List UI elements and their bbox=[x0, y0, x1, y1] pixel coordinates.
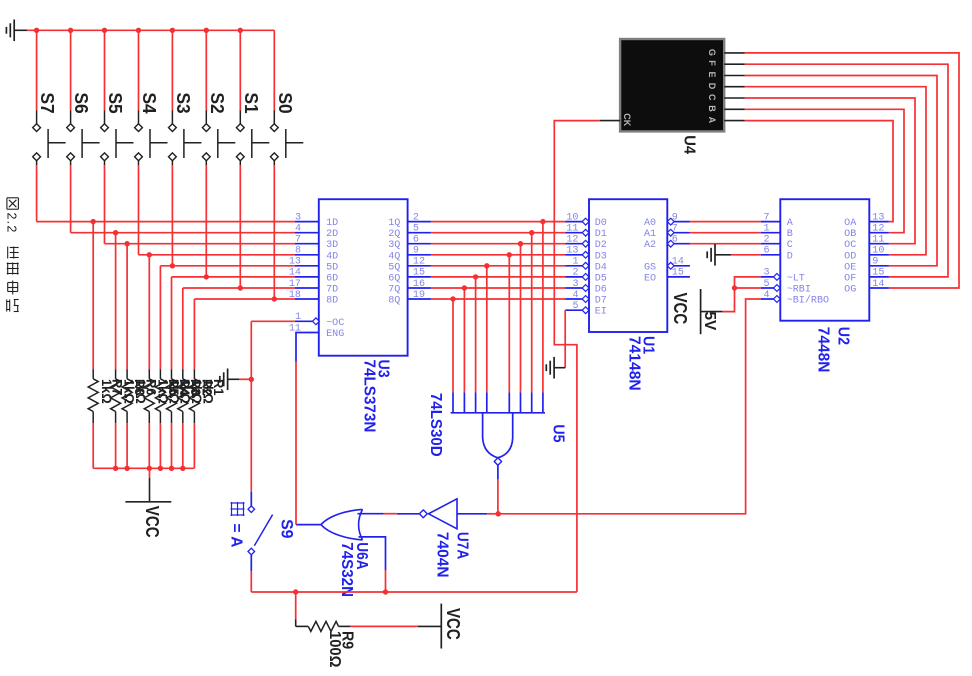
svg-text:GS: GS bbox=[644, 262, 656, 273]
svg-text:5: 5 bbox=[763, 279, 769, 290]
svg-text:3: 3 bbox=[295, 212, 301, 223]
svg-text:~RBI: ~RBI bbox=[787, 285, 811, 296]
svg-text:4D: 4D bbox=[326, 251, 338, 262]
svg-text:S0: S0 bbox=[275, 93, 295, 114]
svg-text:~OC: ~OC bbox=[326, 318, 344, 329]
svg-text:15: 15 bbox=[413, 268, 425, 279]
svg-text:14: 14 bbox=[672, 257, 684, 268]
svg-text:OE: OE bbox=[844, 262, 856, 273]
svg-text:U2: U2 bbox=[835, 327, 852, 345]
svg-text:8Q: 8Q bbox=[388, 296, 400, 307]
svg-text:S4: S4 bbox=[139, 93, 159, 114]
svg-text:11: 11 bbox=[566, 224, 578, 235]
svg-text:1D: 1D bbox=[326, 218, 338, 229]
svg-text:5Q: 5Q bbox=[388, 262, 400, 273]
svg-text:3D: 3D bbox=[326, 240, 338, 251]
svg-text:OF: OF bbox=[844, 273, 856, 284]
svg-text:D7: D7 bbox=[595, 296, 607, 307]
svg-text:74LS30D: 74LS30D bbox=[427, 393, 444, 457]
svg-text:D1: D1 bbox=[595, 229, 607, 240]
svg-text:1Q: 1Q bbox=[388, 218, 400, 229]
svg-text:OC: OC bbox=[844, 240, 856, 251]
svg-text:9: 9 bbox=[413, 246, 419, 257]
svg-text:12: 12 bbox=[872, 224, 884, 235]
svg-text:3: 3 bbox=[572, 279, 578, 290]
svg-text:EO: EO bbox=[644, 273, 656, 284]
svg-text:2: 2 bbox=[763, 235, 769, 246]
svg-text:OA: OA bbox=[844, 218, 857, 229]
svg-text:~BI/RBO: ~BI/RBO bbox=[787, 295, 829, 307]
svg-text:7448N: 7448N bbox=[815, 327, 832, 373]
svg-text:4: 4 bbox=[295, 224, 301, 235]
svg-text:2Q: 2Q bbox=[388, 229, 400, 240]
svg-text:2: 2 bbox=[413, 212, 419, 223]
svg-text:B: B bbox=[707, 105, 717, 112]
svg-text:1: 1 bbox=[763, 224, 769, 235]
svg-text:A2: A2 bbox=[644, 240, 656, 251]
svg-text:C: C bbox=[787, 240, 793, 251]
svg-text:B: B bbox=[787, 229, 793, 240]
svg-text:15: 15 bbox=[672, 268, 684, 279]
svg-text:= A: = A bbox=[228, 524, 245, 548]
svg-text:S9: S9 bbox=[277, 519, 295, 538]
svg-text:11: 11 bbox=[872, 235, 884, 246]
svg-text:4Q: 4Q bbox=[388, 251, 400, 262]
svg-text:14: 14 bbox=[872, 279, 884, 290]
svg-text:13: 13 bbox=[566, 246, 578, 257]
svg-text:8: 8 bbox=[295, 246, 301, 257]
svg-text:1: 1 bbox=[295, 312, 301, 323]
svg-text:G: G bbox=[707, 49, 717, 56]
svg-text:14: 14 bbox=[289, 268, 301, 279]
svg-text:A1: A1 bbox=[644, 229, 656, 240]
svg-text:D3: D3 bbox=[595, 251, 607, 262]
svg-text:~LT: ~LT bbox=[787, 273, 805, 284]
svg-text:U4: U4 bbox=[681, 135, 698, 154]
svg-text:U3: U3 bbox=[375, 360, 392, 379]
svg-text:3Q: 3Q bbox=[388, 240, 400, 251]
svg-text:7: 7 bbox=[763, 212, 769, 223]
svg-text:S2: S2 bbox=[207, 93, 227, 114]
svg-text:U6A: U6A bbox=[353, 542, 370, 569]
svg-text:E: E bbox=[707, 72, 717, 78]
svg-text:U5: U5 bbox=[550, 424, 567, 443]
svg-text:6Q: 6Q bbox=[388, 273, 400, 284]
svg-text:7Q: 7Q bbox=[388, 285, 400, 296]
svg-text:OG: OG bbox=[844, 285, 856, 296]
svg-text:12: 12 bbox=[413, 257, 425, 268]
svg-text:6D: 6D bbox=[326, 273, 338, 284]
svg-text:C: C bbox=[707, 94, 717, 101]
svg-text:A0: A0 bbox=[644, 218, 656, 229]
svg-text:4: 4 bbox=[763, 290, 769, 301]
svg-text:8D: 8D bbox=[326, 296, 338, 307]
svg-text:D5: D5 bbox=[595, 273, 607, 284]
svg-text:3: 3 bbox=[763, 268, 769, 279]
svg-text:D0: D0 bbox=[595, 218, 607, 229]
svg-text:D4: D4 bbox=[595, 262, 607, 273]
svg-text:OD: OD bbox=[844, 251, 856, 262]
svg-text:S6: S6 bbox=[71, 93, 91, 114]
svg-text:S3: S3 bbox=[173, 93, 193, 114]
svg-text:6: 6 bbox=[672, 235, 678, 246]
svg-text:EI: EI bbox=[595, 307, 607, 318]
svg-text:D: D bbox=[707, 83, 717, 90]
svg-text:4: 4 bbox=[572, 290, 578, 301]
svg-text:10: 10 bbox=[872, 246, 884, 257]
svg-text:U1: U1 bbox=[640, 336, 657, 355]
svg-text:2.2: 2.2 bbox=[5, 213, 19, 234]
svg-text:12: 12 bbox=[566, 235, 578, 246]
svg-text:2: 2 bbox=[572, 268, 578, 279]
svg-text:10: 10 bbox=[566, 212, 578, 223]
svg-text:5: 5 bbox=[572, 301, 578, 312]
svg-text:F: F bbox=[707, 60, 717, 66]
svg-text:11: 11 bbox=[289, 323, 301, 334]
svg-text:R9: R9 bbox=[339, 631, 356, 650]
svg-text:D: D bbox=[787, 251, 793, 262]
svg-text:7: 7 bbox=[295, 235, 301, 246]
svg-text:1: 1 bbox=[572, 257, 578, 268]
svg-text:74S32N: 74S32N bbox=[338, 542, 355, 597]
svg-text:6: 6 bbox=[763, 246, 769, 257]
svg-text:S7: S7 bbox=[37, 93, 57, 114]
svg-text:9: 9 bbox=[872, 257, 878, 268]
svg-text:OB: OB bbox=[844, 229, 856, 240]
svg-text:A: A bbox=[787, 218, 794, 229]
svg-text:U7A: U7A bbox=[454, 532, 471, 559]
svg-text:19: 19 bbox=[413, 290, 425, 301]
svg-text:D6: D6 bbox=[595, 285, 607, 296]
svg-text:7404N: 7404N bbox=[434, 532, 451, 578]
svg-text:CK: CK bbox=[622, 113, 632, 126]
svg-text:6: 6 bbox=[413, 235, 419, 246]
svg-text:5: 5 bbox=[413, 224, 419, 235]
svg-text:16: 16 bbox=[413, 279, 425, 290]
svg-text:9: 9 bbox=[672, 212, 678, 223]
svg-text:ENG: ENG bbox=[326, 329, 344, 340]
svg-text:S1: S1 bbox=[241, 93, 261, 114]
svg-text:7: 7 bbox=[672, 224, 678, 235]
svg-text:VCC: VCC bbox=[670, 293, 690, 325]
svg-text:VCC: VCC bbox=[443, 608, 463, 640]
svg-text:13: 13 bbox=[289, 257, 301, 268]
svg-text:A: A bbox=[707, 117, 717, 124]
svg-text:D2: D2 bbox=[595, 240, 607, 251]
svg-text:17: 17 bbox=[289, 279, 301, 290]
svg-text:2D: 2D bbox=[326, 229, 338, 240]
svg-text:VCC: VCC bbox=[142, 506, 162, 538]
svg-text:5V: 5V bbox=[701, 312, 718, 331]
svg-text:13: 13 bbox=[872, 212, 884, 223]
svg-text:15: 15 bbox=[872, 268, 884, 279]
svg-text:5D: 5D bbox=[326, 262, 338, 273]
svg-text:7D: 7D bbox=[326, 285, 338, 296]
svg-text:S5: S5 bbox=[105, 93, 125, 114]
svg-text:18: 18 bbox=[289, 290, 301, 301]
